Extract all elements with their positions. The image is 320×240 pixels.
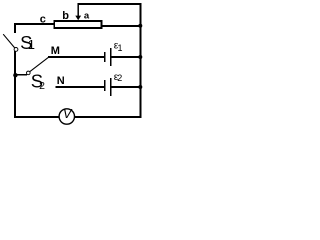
svg-text:M: M [51, 45, 60, 57]
svg-text:a: a [84, 11, 90, 22]
svg-text:2: 2 [39, 80, 45, 92]
svg-text:c: c [40, 14, 46, 26]
svg-text:N: N [57, 75, 65, 87]
svg-text:2: 2 [117, 73, 122, 83]
svg-text:1: 1 [118, 43, 123, 53]
svg-text:V: V [63, 106, 73, 121]
svg-text:1: 1 [28, 37, 35, 52]
svg-text:b: b [62, 10, 69, 22]
